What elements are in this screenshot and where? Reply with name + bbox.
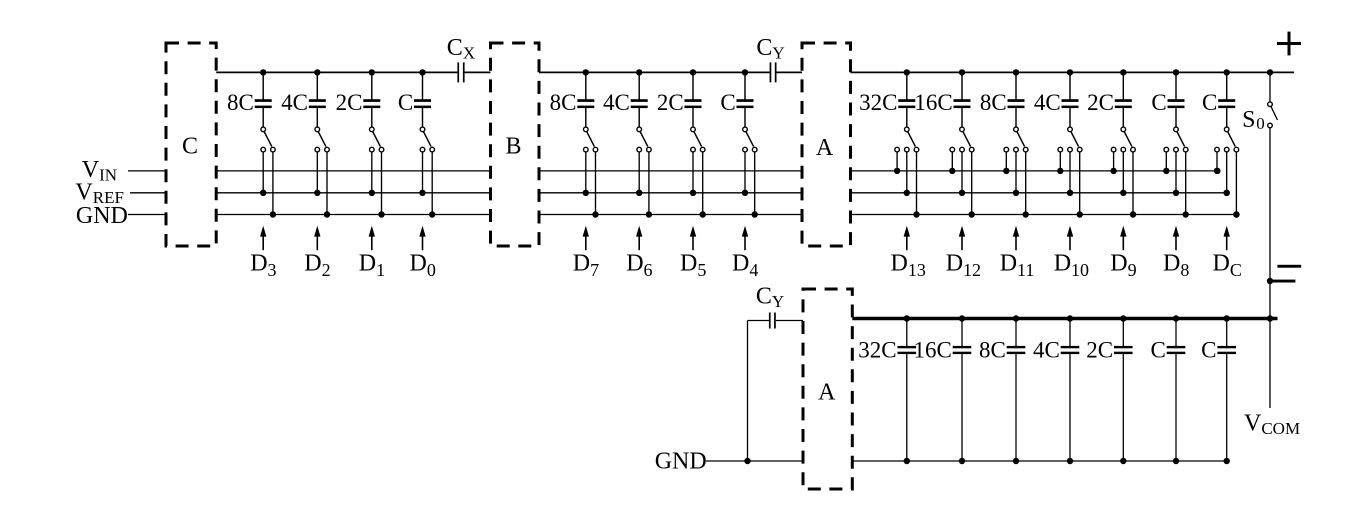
svg-text:C: C	[720, 90, 735, 115]
svg-text:2C: 2C	[657, 90, 684, 115]
svg-text:A: A	[818, 380, 836, 406]
svg-text:4C: 4C	[1033, 337, 1060, 362]
svg-text:0: 0	[1256, 114, 1265, 133]
svg-text:C: C	[1151, 90, 1166, 115]
svg-text:S: S	[1242, 107, 1255, 133]
svg-text:4C: 4C	[281, 90, 308, 115]
svg-text:GND: GND	[655, 449, 707, 475]
svg-text:C: C	[1202, 90, 1217, 115]
svg-text:2C: 2C	[1087, 90, 1114, 115]
svg-text:8C: 8C	[980, 90, 1007, 115]
svg-text:C: C	[398, 90, 413, 115]
svg-text:32C: 32C	[859, 90, 897, 115]
svg-text:32C: 32C	[858, 337, 896, 362]
svg-text:4C: 4C	[603, 90, 630, 115]
svg-text:8C: 8C	[227, 90, 254, 115]
svg-text:C: C	[1150, 337, 1165, 362]
svg-text:C: C	[1201, 337, 1216, 362]
svg-text:GND: GND	[76, 203, 128, 229]
svg-text:2C: 2C	[336, 90, 363, 115]
svg-text:8C: 8C	[979, 337, 1006, 362]
svg-text:C: C	[182, 134, 198, 160]
svg-text:2C: 2C	[1086, 337, 1113, 362]
svg-text:16C: 16C	[913, 337, 951, 362]
svg-text:A: A	[816, 135, 834, 161]
svg-text:8C: 8C	[550, 90, 577, 115]
svg-text:B: B	[505, 134, 521, 160]
svg-text:16C: 16C	[914, 90, 952, 115]
svg-text:4C: 4C	[1034, 90, 1061, 115]
